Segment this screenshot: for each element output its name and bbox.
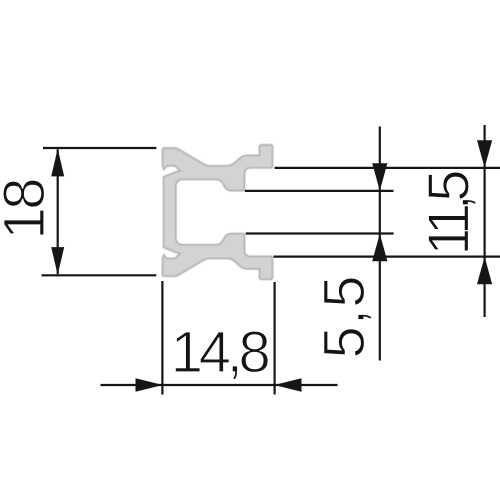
dim 18: bottom extension line <box>42 274 157 276</box>
arrow dim18 down <box>51 247 64 275</box>
svg-text:5,5: 5,5 <box>312 276 377 359</box>
dim 11,5: dimension line <box>484 125 486 317</box>
svg-text:11,5: 11,5 <box>416 170 481 256</box>
extension line D (top of bottom-right arm) <box>274 256 500 258</box>
arrow dim18 up <box>51 149 64 177</box>
arrow dim11,5 down (tip on line A) <box>477 140 492 168</box>
arrow dim14,8 right-pointing (left side) <box>136 378 163 392</box>
extension line C (top of bottom hook) <box>246 232 394 234</box>
arrow dim11,5 up (tip on line D) <box>477 257 492 285</box>
arrow dim5,5 up (tip on line C) <box>372 234 387 262</box>
dim 14,8: right extension line <box>274 282 276 395</box>
dim 18: top extension line <box>43 147 156 149</box>
svg-text:18: 18 <box>0 178 57 240</box>
arrow dim5,5 down (tip on line B) <box>372 163 387 191</box>
profile cross-section (grey extrusion) <box>163 145 273 279</box>
dim 5,5: dimension line <box>379 127 381 361</box>
dim 18: dimension line <box>57 149 59 274</box>
dim 14,8: left extension line <box>161 281 163 395</box>
svg-text:14,8: 14,8 <box>171 320 271 385</box>
arrow dim14,8 left-pointing (right side) <box>274 378 301 392</box>
extension line B (bottom of top hook) <box>245 190 394 192</box>
dim 14,8: dimension line <box>101 384 338 386</box>
extension line A (top right, underside of top-right arm) <box>275 167 500 169</box>
